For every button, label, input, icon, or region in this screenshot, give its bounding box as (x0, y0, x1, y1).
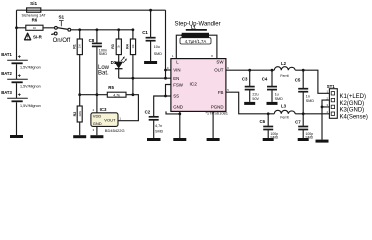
svg-text:220k: 220k (79, 110, 82, 116)
switch S1 (51, 21, 71, 35)
ground battery (10, 135, 23, 138)
svg-text:Step-Up-Wandler: Step-Up-Wandler (175, 21, 221, 27)
capacitor C7 (298, 114, 308, 138)
svg-text:C5: C5 (295, 78, 301, 83)
node line3 R1 R2 (78, 93, 81, 96)
svg-text:C1: C1 (142, 30, 148, 35)
node VIN stub (164, 69, 167, 72)
node C3 tap (248, 69, 251, 72)
svg-text:OUT: OUT (214, 68, 224, 73)
svg-text:SMD: SMD (99, 52, 108, 56)
ground C4 (267, 102, 278, 105)
svg-text:K4(Sense): K4(Sense) (340, 114, 368, 120)
svg-text:C7: C7 (295, 119, 301, 124)
svg-text:Ferrit: Ferrit (280, 74, 288, 78)
node K2 K3 (321, 106, 324, 109)
resistor R3 (116, 30, 121, 62)
resistor R5 (107, 92, 126, 97)
inductor L3 (274, 110, 295, 113)
node C5 tap (302, 69, 305, 72)
svg-text:8: 8 (211, 54, 213, 58)
wire K2 K3 ground (322, 100, 329, 140)
wire EN line from D1 cathode (119, 77, 171, 79)
svg-text:R3: R3 (111, 44, 115, 49)
ground C1 (144, 61, 157, 64)
capacitor C2 (149, 117, 159, 138)
svg-text:5: 5 (227, 88, 229, 92)
capacitor C4 (267, 70, 277, 102)
svg-text:VIN: VIN (173, 68, 180, 73)
node R3 tap (117, 28, 120, 31)
svg-text:ST1: ST1 (327, 84, 336, 89)
svg-text:C8: C8 (89, 38, 95, 43)
inductor L2 (274, 67, 295, 71)
svg-text:PGND: PGND (211, 105, 224, 110)
svg-text:1M: 1M (79, 44, 82, 47)
svg-text:Si1: Si1 (30, 1, 37, 6)
svg-text:R2: R2 (73, 112, 77, 117)
ground C3 (244, 102, 255, 105)
node battery to R6 (15, 26, 18, 29)
svg-text:SS: SS (173, 94, 179, 99)
svg-text:L1: L1 (191, 25, 197, 30)
resistor R2 (77, 95, 82, 136)
LED D1 (115, 56, 127, 78)
svg-text:L3: L3 (281, 104, 287, 109)
svg-text:GND: GND (93, 121, 102, 126)
wire battery plus rail left vertical (16, 10, 18, 135)
svg-text:BAT1: BAT1 (1, 52, 12, 57)
wire FB sense line (226, 92, 330, 114)
node R4 tap (132, 28, 135, 31)
node GND junction (178, 113, 181, 116)
svg-text:FSW: FSW (173, 82, 184, 87)
svg-text:VOUT: VOUT (104, 117, 116, 122)
svg-text:R4: R4 (125, 44, 129, 49)
svg-text:K1(+LED): K1(+LED) (340, 94, 367, 100)
svg-text:4,7µH/1,7A: 4,7µH/1,7A (185, 39, 207, 44)
svg-text:SW: SW (216, 60, 224, 65)
capacitor C6 (263, 114, 273, 138)
ground IC3 (90, 135, 103, 138)
svg-text:K2(GND): K2(GND) (340, 101, 365, 107)
wire VIN vertical from top rail (165, 10, 167, 78)
wire OUT net (226, 70, 330, 93)
capacitor C8 (92, 30, 102, 95)
svg-text:L2: L2 (281, 61, 287, 66)
svg-text:4,7n: 4,7n (155, 124, 162, 128)
svg-text:10u: 10u (154, 45, 160, 49)
svg-text:C2: C2 (145, 110, 151, 115)
node FSW SS (164, 95, 167, 98)
svg-text:EN: EN (173, 76, 179, 81)
node C7 tap (302, 112, 305, 115)
node R1 tap (78, 28, 81, 31)
svg-text:VDD: VDD (93, 114, 102, 119)
IC U IC2 TPS61081 step-up converter (171, 59, 226, 112)
ground IC2 PGND (207, 138, 220, 141)
svg-text:R6: R6 (32, 17, 38, 22)
resistor R1 (77, 30, 82, 95)
node R4 to R5 VOUT line (132, 93, 135, 96)
wire R5 right to VOUT (118, 95, 138, 121)
wire IC3 GND down (96, 126, 98, 135)
svg-text:SMD: SMD (306, 99, 315, 103)
node C8 tap (96, 28, 99, 31)
fuse Si1 (27, 8, 41, 12)
resistor R6 (26, 25, 43, 30)
battery BAT2 (7, 74, 28, 83)
capacitor C5 (298, 70, 308, 114)
svg-text:BAT2: BAT2 (1, 71, 12, 76)
node C4 tap (271, 69, 274, 72)
svg-text:SMD: SMD (154, 52, 163, 56)
capacitor C1 (146, 10, 156, 61)
svg-text:IC2: IC2 (189, 81, 197, 87)
svg-text:R5: R5 (108, 85, 114, 90)
battery BAT1 (7, 55, 28, 64)
svg-text:1,5V/Mignon: 1,5V/Mignon (20, 104, 41, 108)
ground C7 (298, 138, 309, 141)
svg-text:C4: C4 (262, 77, 268, 82)
safety warning triangle Si-R (25, 33, 31, 40)
node C6 tap (267, 112, 270, 115)
ground IC2 GND (173, 138, 186, 141)
svg-text:C3: C3 (242, 76, 248, 81)
svg-text:6: 6 (227, 66, 229, 70)
svg-text:Si-R: Si-R (33, 34, 43, 39)
wire FSW SS to C2 (154, 85, 171, 117)
svg-text:50V: 50V (252, 97, 259, 101)
svg-text:*1TPS61081: *1TPS61081 (205, 110, 228, 115)
IC U IC3 voltage detector (91, 113, 118, 127)
connector ST1 (329, 89, 337, 119)
svg-text:D1: D1 (111, 60, 117, 65)
node line3 C8 vertical (96, 93, 99, 96)
svg-text:1,5V/Mignon: 1,5V/Mignon (20, 84, 41, 88)
svg-text:FB: FB (218, 90, 224, 95)
svg-text:Bat.: Bat. (98, 71, 109, 77)
wire C8 node down to IC3 VDD (96, 95, 98, 113)
battery BAT3 (7, 93, 28, 102)
svg-text:2: 2 (93, 108, 95, 112)
node R4 to EN line (132, 77, 135, 80)
node C1 tap on top rail (149, 9, 152, 12)
svg-text:9: 9 (167, 66, 169, 70)
resistor R4 (130, 30, 135, 95)
wire top rail (17, 9, 166, 11)
svg-text:1,5V/Mignon: 1,5V/Mignon (20, 65, 41, 69)
svg-text:SMD: SMD (275, 97, 284, 101)
svg-text:SMD: SMD (155, 129, 164, 133)
wire PGND down (212, 111, 214, 138)
ground C2 (147, 138, 161, 141)
ground ST1 (316, 140, 329, 143)
svg-text:C6: C6 (260, 119, 266, 124)
wire switched rail (17, 28, 134, 30)
ground C6 (263, 138, 274, 141)
svg-text:BAT3: BAT3 (1, 90, 12, 95)
wire GND pad pins to ground (166, 111, 180, 138)
wire VIN stub (166, 69, 172, 71)
wire line3 to R5 (80, 94, 108, 96)
svg-text:3: 3 (93, 128, 95, 132)
svg-text:4,7k: 4,7k (113, 93, 120, 97)
svg-text:1: 1 (172, 54, 174, 58)
svg-text:R1: R1 (72, 44, 76, 49)
svg-text:GND: GND (173, 105, 183, 110)
svg-text:S1: S1 (58, 15, 64, 20)
node EN line (164, 77, 167, 80)
inductor L1 (176, 30, 217, 59)
svg-text:1: 1 (120, 116, 122, 120)
capacitor C3 (245, 70, 255, 102)
svg-text:On/Off: On/Off (53, 38, 71, 44)
svg-text:BD45422G: BD45422G (105, 128, 125, 133)
svg-text:K3(GND): K3(GND) (340, 108, 365, 114)
ground R2 (73, 135, 86, 138)
svg-text:IC3: IC3 (100, 107, 107, 112)
svg-text:Ferrit: Ferrit (280, 116, 288, 120)
